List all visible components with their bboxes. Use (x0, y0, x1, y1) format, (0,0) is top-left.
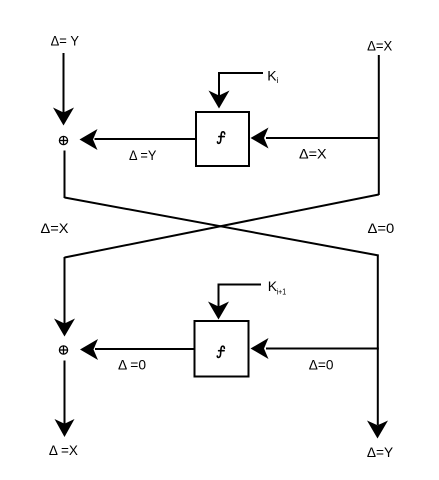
f-function box F2 (195, 321, 249, 377)
wire: right input vertical (round 1) (378, 55, 380, 195)
svg-text:Δ=X: Δ=X (41, 220, 70, 236)
wire: left branch below XOR X1 (64, 151, 66, 199)
wire: right branch into F2 with left arrowhead (251, 338, 379, 359)
svg-text:Δ =0: Δ =0 (118, 357, 146, 373)
wire: left output vertical below XOR X2 with down arrowhead (55, 361, 75, 438)
wire: right output vertical with down arrowhead (367, 256, 388, 439)
svg-text:Δ =Y: Δ =Y (129, 147, 157, 163)
svg-text:Δ= Y: Δ= Y (51, 33, 80, 49)
wire: left vertical with down arrowhead into XOR X2 (54, 257, 75, 337)
wire: F1 output to XOR X1 with left arrowhead (80, 129, 196, 150)
wire: subkey Ki into F1 (horizontal then down arrow) (209, 73, 264, 109)
wire: F2 output to XOR X2 with left arrowhead (80, 339, 194, 360)
XOR gate X1 (59, 136, 67, 144)
svg-text:Δ=X: Δ=X (367, 38, 393, 54)
wire: left input vertical with down arrowhead into XOR X1 (53, 53, 74, 126)
wire: right branch into F1 with left arrowhead (251, 128, 380, 149)
wire: crossover diagonal right-to-left (65, 195, 379, 258)
wire: subkey Ki+1 into F2 (horizontal then down arrow) (208, 285, 261, 320)
svg-text:Δ =X: Δ =X (49, 442, 79, 458)
node label K_i (subkey round i) (267, 68, 278, 86)
svg-text:i: i (277, 76, 279, 85)
f-function box F1 (196, 112, 249, 166)
XOR gate X2 (59, 346, 67, 354)
svg-text:Δ=0: Δ=0 (368, 220, 395, 236)
svg-text:Δ=Y: Δ=Y (367, 444, 394, 460)
svg-text:Δ=X: Δ=X (299, 146, 327, 162)
wire: crossover diagonal left-to-right (65, 198, 379, 256)
svg-text:Δ=0: Δ=0 (309, 357, 334, 373)
svg-text:i+1: i+1 (277, 288, 287, 297)
node label K_i+1 (subkey round i+1) (268, 278, 287, 297)
